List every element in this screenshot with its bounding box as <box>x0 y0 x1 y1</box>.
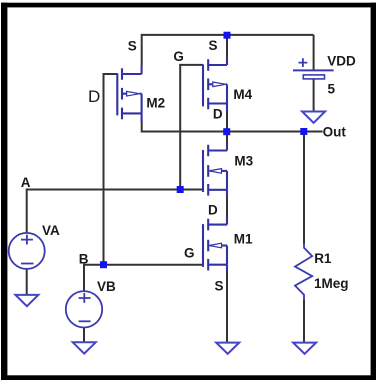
svg-text:VDD: VDD <box>327 53 356 68</box>
svg-text:S: S <box>128 38 137 53</box>
svg-text:D: D <box>88 87 100 106</box>
ground below VDD battery <box>302 112 325 123</box>
svg-text:S: S <box>209 38 218 53</box>
pin label S of M1 <box>215 279 224 294</box>
label VB <box>97 279 116 294</box>
value label 1Meg <box>314 276 349 291</box>
wire M2 drain riser <box>141 121 143 133</box>
wire R1 column from Out <box>303 132 305 244</box>
wire row A <box>27 189 203 191</box>
node Out junction with R1 <box>300 128 307 135</box>
label VA <box>42 223 60 238</box>
ground below VA <box>15 295 38 306</box>
wire M2 source riser <box>141 34 143 66</box>
wire M2 gate to node B (net D) <box>104 74 118 265</box>
svg-text:G: G <box>173 49 184 64</box>
wire VDD riser <box>313 35 315 70</box>
wire VDD battery to ground <box>313 79 315 112</box>
ground below R1 <box>293 343 316 354</box>
svg-text:G: G <box>184 245 195 260</box>
label VDD <box>327 53 356 68</box>
voltage source VB <box>66 291 102 327</box>
svg-text:D: D <box>213 106 223 121</box>
wire M4 gate drop node A <box>180 65 203 190</box>
resistor R1 <box>295 244 312 301</box>
wire row B to M1 gate <box>84 264 203 266</box>
wire VB riser <box>83 264 85 292</box>
pin label D of M1 <box>208 203 218 218</box>
node A junction <box>177 186 184 193</box>
label M2 <box>146 96 165 111</box>
pin label D of M4 <box>213 106 223 121</box>
value label 5 <box>328 82 336 97</box>
ground below M1 source <box>216 343 239 354</box>
svg-text:A: A <box>21 175 31 190</box>
wire VB to ground <box>83 327 85 342</box>
svg-text:S: S <box>215 279 224 294</box>
pin label G of M4 <box>173 49 184 64</box>
label M1 <box>234 232 253 247</box>
svg-text:VB: VB <box>97 279 116 294</box>
pin label S of M4 <box>209 38 218 53</box>
label Out <box>323 124 347 139</box>
label M3 <box>234 153 253 168</box>
label net D (large) <box>88 87 100 106</box>
wire M4 drain riser <box>226 111 228 132</box>
node junction out row / M4-M3 drains <box>223 128 230 135</box>
transistor M1 (NMOS) <box>203 217 227 271</box>
wire top rail VDD <box>142 34 314 36</box>
svg-text:Out: Out <box>323 124 347 139</box>
label R1 <box>314 251 332 266</box>
svg-text:VA: VA <box>42 223 60 238</box>
wire M4 source riser <box>226 35 228 57</box>
svg-text:D: D <box>208 203 218 218</box>
svg-text:M2: M2 <box>146 96 165 111</box>
label net A <box>21 175 31 190</box>
transistor M3 (NMOS) <box>203 143 227 198</box>
wire M3 source to M1 drain <box>226 197 228 218</box>
pin label S of M2 <box>128 38 137 53</box>
wire M3 drain riser <box>226 132 228 144</box>
transistor M4 (PMOS) <box>203 57 227 112</box>
svg-text:M1: M1 <box>234 232 253 247</box>
svg-text:M3: M3 <box>234 153 253 168</box>
ground below VB <box>73 342 96 353</box>
svg-text:R1: R1 <box>314 251 332 266</box>
wire M1 source to ground <box>226 270 228 343</box>
svg-text:5: 5 <box>328 82 336 97</box>
label net B <box>79 252 89 267</box>
voltage source VDD battery <box>293 58 334 79</box>
wire out row <box>142 131 323 133</box>
label M4 <box>233 87 252 102</box>
svg-text:1Meg: 1Meg <box>314 276 349 291</box>
wire R1 to ground <box>303 300 305 343</box>
wire VA to ground <box>26 269 28 295</box>
svg-text:B: B <box>79 252 89 267</box>
svg-text:M4: M4 <box>233 87 252 102</box>
wire VA riser <box>26 189 28 234</box>
node junction top rail / M4 source <box>224 32 231 39</box>
node B junction <box>100 261 107 268</box>
transistor M2 (PMOS) <box>117 66 141 121</box>
pin label G of M1 <box>184 245 195 260</box>
voltage source VA <box>9 233 45 269</box>
